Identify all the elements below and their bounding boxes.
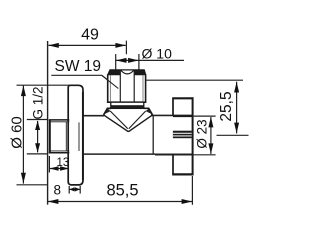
dimension 8 extensions: [68, 186, 70, 194]
valve cone seat: [104, 108, 153, 131]
dimension 49 line: [49, 44, 126, 46]
svg-text:G 1/2: G 1/2: [31, 86, 46, 119]
dimension O60 arrows: [21, 86, 26, 184]
cone inner V right: [129, 111, 146, 129]
cone outer V: [104, 115, 153, 131]
svg-text:Ø 23: Ø 23: [195, 119, 210, 148]
dimension G1_2 arrows: [35, 121, 40, 153]
dimension 13 left extension: [48, 156, 50, 173]
svg-text:Ø 10: Ø 10: [142, 46, 173, 62]
dimension O10 arrows: [116, 58, 139, 63]
cone left lip and flare: [104, 108, 111, 115]
dimension 8 arrows: [69, 187, 80, 191]
valve body horizontal: [83, 115, 193, 154]
valve hex cap SW19: [108, 70, 146, 102]
hex chamfer left fill: [108, 70, 121, 75]
svg-text:49: 49: [81, 26, 99, 43]
wire wall reference extension line: [47, 41, 49, 205]
dimension O60 extensions: [17, 84, 70, 86]
dimension 49 right extension: [125, 41, 127, 55]
dimension 25_5 arrows: [234, 82, 239, 133]
svg-text:8: 8: [54, 183, 62, 198]
dimension G1_2 line: [37, 121, 39, 152]
inlet stub G1/2: [49, 120, 70, 153]
dimension O10 extensions: [115, 54, 117, 70]
svg-text:25,5: 25,5: [218, 91, 235, 121]
dimension 13 line: [49, 168, 69, 170]
packing washer under hex: [110, 102, 144, 108]
dimension O10 line: [116, 59, 184, 61]
handle disc edge-on right: [172, 97, 193, 175]
handle knurled hub: [173, 131, 192, 139]
wall flange rosette: [68, 85, 83, 185]
dimension O23 arrows: [208, 117, 213, 154]
label SW19 leader over hex: [102, 75, 119, 88]
flange inner pipe line: [78, 122, 80, 151]
dimension G1_2 extensions: [27, 119, 48, 121]
hex top contour: [108, 70, 146, 75]
svg-text:13: 13: [57, 157, 70, 169]
dimension 25_5 top extension: [146, 79, 243, 81]
dimension 49 arrows: [48, 43, 126, 48]
dimension 13 arrows: [50, 166, 70, 170]
label SW19 leader: [51, 75, 118, 88]
cone corner wedge right: [146, 109, 153, 115]
dimension 85_5 right extension: [191, 176, 193, 205]
svg-text:85,5: 85,5: [106, 182, 138, 200]
svg-text:SW 19: SW 19: [55, 58, 102, 75]
dimension 8 line: [69, 188, 80, 190]
svg-text:Ø 60: Ø 60: [8, 116, 25, 149]
hex middle facet saddle arc: [121, 70, 134, 74]
cone corner wedge left: [104, 109, 111, 115]
hex chamfer right fill: [134, 70, 146, 75]
dimension O23 line: [210, 117, 212, 154]
dimension 85_5 arrows: [48, 199, 192, 204]
dimension O60 line: [22, 86, 24, 184]
cone right lip and flare: [144, 108, 153, 115]
dimension 25_5 bottom extension: [217, 134, 249, 136]
dimension 85_5 line: [48, 201, 193, 203]
body joint line: [152, 115, 154, 154]
dimension 25_5 line: [236, 82, 238, 134]
dimension O23 extensions: [194, 115, 216, 117]
cone inner V left: [110, 111, 128, 129]
